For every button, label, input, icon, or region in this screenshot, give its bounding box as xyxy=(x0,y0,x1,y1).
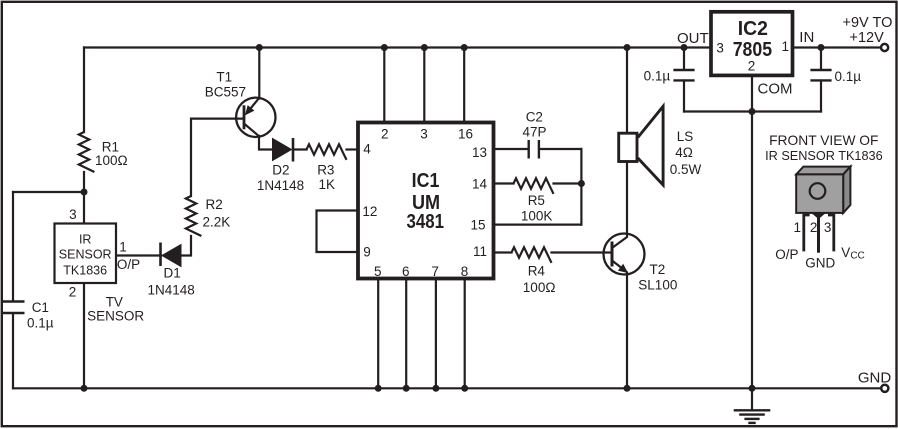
svg-text:+9V TO: +9V TO xyxy=(843,15,893,31)
terminal GND xyxy=(881,385,888,392)
svg-text:2: 2 xyxy=(748,59,756,74)
svg-text:SL100: SL100 xyxy=(638,278,677,293)
svg-text:2: 2 xyxy=(381,126,389,141)
svg-text:100K: 100K xyxy=(521,208,553,223)
svg-text:2.2K: 2.2K xyxy=(203,215,231,230)
wire T2 emitter down xyxy=(626,273,628,389)
svg-text:IC1: IC1 xyxy=(412,170,440,192)
svg-text:IN: IN xyxy=(799,29,814,46)
wire right 0.1u cap top lead xyxy=(820,48,822,70)
svg-text:+12V: +12V xyxy=(850,30,885,46)
wire IC1 pin16 up xyxy=(463,48,465,123)
svg-text:IR SENSOR TK1836: IR SENSOR TK1836 xyxy=(765,149,883,163)
svg-text:1N4148: 1N4148 xyxy=(148,283,195,298)
svg-text:4: 4 xyxy=(363,141,371,156)
ground symbol xyxy=(734,410,771,423)
svg-text:0.5W: 0.5W xyxy=(670,162,702,177)
ground stub xyxy=(751,388,753,409)
svg-text:OUT: OUT xyxy=(677,30,709,47)
svg-text:0.1µ: 0.1µ xyxy=(644,68,671,83)
svg-text:13: 13 xyxy=(472,145,487,160)
svg-text:6: 6 xyxy=(402,264,410,279)
wire C1 bottom to bottom rail xyxy=(12,314,14,389)
svg-text:100Ω: 100Ω xyxy=(523,280,556,295)
svg-text:0.1µ: 0.1µ xyxy=(835,69,862,84)
svg-text:T1: T1 xyxy=(216,69,232,84)
svg-text:T2: T2 xyxy=(650,262,666,277)
wire IR sensor pin2 down xyxy=(83,283,85,388)
svg-text:SENSOR: SENSOR xyxy=(59,248,112,262)
svg-text:BC557: BC557 xyxy=(205,84,246,99)
wire IC1 pin14 to R5 xyxy=(494,182,514,184)
wire top rail right of IC2 xyxy=(794,46,881,48)
svg-text:COM: COM xyxy=(758,80,793,97)
svg-text:0.1µ: 0.1µ xyxy=(27,316,54,331)
wire IC1 pin8 down xyxy=(464,279,466,388)
IR sensor box (schematic) xyxy=(55,224,117,284)
diode D2 xyxy=(273,138,294,162)
svg-text:1: 1 xyxy=(794,220,802,235)
svg-text:14: 14 xyxy=(472,177,488,192)
capacitor C2 xyxy=(529,140,539,159)
wire right 0.1u cap bottom lead xyxy=(820,81,822,112)
svg-text:O/P: O/P xyxy=(775,247,798,262)
svg-text:4Ω: 4Ω xyxy=(675,145,693,160)
wire R5 to junction xyxy=(554,182,582,184)
wire IC1 pin15 xyxy=(494,224,582,226)
wire IC2 COM down to ground xyxy=(751,76,753,389)
wire R2 top to T1 base xyxy=(191,119,244,196)
svg-text:C2: C2 xyxy=(526,110,543,125)
svg-text:11: 11 xyxy=(473,244,487,259)
wire R3 to IC1 pin4 xyxy=(347,148,359,150)
svg-text:TV: TV xyxy=(106,295,123,310)
svg-text:9: 9 xyxy=(363,244,371,259)
wire IC1 pin6 down xyxy=(405,279,407,388)
wire LS to T2 collector xyxy=(626,162,628,237)
wire IC1 pin7 down xyxy=(435,279,437,388)
svg-text:1: 1 xyxy=(119,239,127,254)
resistor R1 xyxy=(79,132,95,172)
diode D1 xyxy=(161,243,182,267)
IC1 UM3481 box xyxy=(358,123,494,279)
svg-text:8: 8 xyxy=(461,264,469,279)
svg-text:R3: R3 xyxy=(317,163,334,178)
svg-text:IR: IR xyxy=(79,233,92,247)
terminal +9V xyxy=(881,44,888,51)
svg-text:D1: D1 xyxy=(164,266,181,281)
wire C2/R5 right vertical xyxy=(580,149,582,225)
svg-text:47P: 47P xyxy=(523,124,547,139)
svg-text:3: 3 xyxy=(69,207,77,222)
svg-text:100Ω: 100Ω xyxy=(95,153,128,168)
wire IR sensor pin1 to D1 xyxy=(116,254,161,256)
svg-text:3481: 3481 xyxy=(407,211,445,233)
svg-text:3: 3 xyxy=(824,220,832,235)
svg-text:D2: D2 xyxy=(272,163,289,178)
wire IC1 pin3 up xyxy=(423,48,425,123)
svg-text:GND: GND xyxy=(805,255,835,270)
svg-text:R5: R5 xyxy=(528,193,545,208)
transistor T2 xyxy=(604,234,645,275)
wire R1 bottom to IR sensor box xyxy=(83,172,85,224)
resistor R3 xyxy=(307,144,347,160)
svg-text:1N4148: 1N4148 xyxy=(257,178,304,193)
svg-text:3: 3 xyxy=(716,41,724,56)
wire T1 collector to D2 xyxy=(259,136,273,150)
wire bottom rail xyxy=(13,387,881,389)
svg-text:2: 2 xyxy=(69,285,77,300)
wire IC1 pin2 up xyxy=(383,48,385,123)
svg-text:R4: R4 xyxy=(528,264,546,279)
svg-text:7: 7 xyxy=(431,264,439,279)
wire D2 cathode to R3 xyxy=(293,148,307,150)
resistor R5 xyxy=(514,178,554,194)
svg-text:1: 1 xyxy=(782,39,790,54)
svg-text:2: 2 xyxy=(810,220,818,235)
wire left 0.1u cap top lead xyxy=(683,48,685,70)
wire LS branch from rail xyxy=(626,48,628,133)
svg-text:O/P: O/P xyxy=(117,257,140,272)
wire C2 right to corner xyxy=(540,148,582,150)
wire top rail left of IC2 xyxy=(84,46,709,48)
svg-text:FRONT VIEW OF: FRONT VIEW OF xyxy=(769,133,878,148)
wire R4 to T2 base xyxy=(552,251,613,253)
wire R1 branch top xyxy=(83,48,85,133)
wire D1 anode to R2 bottom xyxy=(181,236,191,256)
svg-text:3: 3 xyxy=(420,126,428,141)
wire COM bottom rail xyxy=(684,110,821,112)
IC2 7805 box xyxy=(711,12,793,76)
svg-text:C1: C1 xyxy=(32,300,49,315)
resistor R2 xyxy=(186,196,202,236)
capacitor 0.1u right of IC2 xyxy=(810,70,831,80)
svg-text:GND: GND xyxy=(858,370,892,387)
capacitor C1 xyxy=(3,302,25,314)
transistor T1 xyxy=(236,98,275,137)
svg-text:5: 5 xyxy=(374,264,382,279)
resistor R4 xyxy=(512,247,552,263)
svg-text:TK1836: TK1836 xyxy=(63,264,107,278)
svg-text:LS: LS xyxy=(677,129,694,144)
svg-text:SENSOR: SENSOR xyxy=(87,309,144,324)
wire IC1 pin5 down xyxy=(377,279,379,388)
svg-text:16: 16 xyxy=(458,126,473,141)
speaker LS xyxy=(619,106,663,185)
capacitor 0.1u left of IC2 xyxy=(673,70,694,80)
wire left vertical to C1 xyxy=(12,192,14,301)
svg-text:IC2: IC2 xyxy=(738,18,768,40)
IR sensor front view legs xyxy=(804,213,834,253)
wire T1 emitter up to rail xyxy=(258,48,260,99)
svg-text:R2: R2 xyxy=(206,197,223,212)
svg-text:15: 15 xyxy=(470,217,485,232)
wire IC1 pins12-9 loop xyxy=(317,211,359,253)
svg-text:12: 12 xyxy=(362,204,377,219)
wire left 0.1u cap bottom lead xyxy=(683,81,685,112)
IR sensor front view body xyxy=(796,167,850,213)
wire IC1 pin11 to R4 xyxy=(494,251,512,253)
wire left loop horizontal xyxy=(13,191,84,193)
wire IC1 pin13 to C2 xyxy=(494,148,528,150)
svg-text:1K: 1K xyxy=(319,177,336,192)
